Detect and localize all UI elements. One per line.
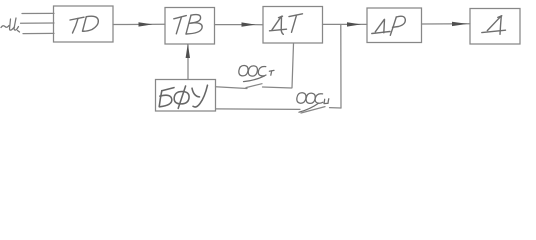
arrowhead TD to TV	[139, 22, 153, 26]
switch OOCt slash	[246, 84, 262, 88]
label OOCt (ООСт)	[239, 65, 274, 81]
arrowhead TV to DT	[242, 22, 256, 26]
wire BFU to TV (vertical)	[187, 45, 189, 80]
block DR (ДР)	[367, 8, 422, 43]
arrowhead BFU to TV	[186, 44, 190, 58]
block BFU (БФУ)	[156, 80, 216, 112]
wire OOCi vertical to DT-DR wire	[340, 25, 342, 109]
block TD (ТД)	[54, 6, 114, 42]
arrowhead DT to DR	[347, 22, 361, 26]
wire input line 1	[22, 12, 54, 14]
label OOCi (ООСи)	[297, 93, 329, 112]
wire OOCt vertical to DT bottom	[292, 44, 294, 88]
wire OOCt segment from BFU	[216, 87, 248, 89]
label ДТ	[270, 14, 303, 35]
wire DR to D	[422, 23, 471, 25]
wire OOCi segment from BFU	[216, 108, 300, 111]
label БФУ	[159, 85, 207, 108]
wire OOCi stub	[330, 107, 342, 109]
switch OOCi slash	[301, 107, 325, 113]
label ТД	[70, 16, 98, 33]
arrowhead DR to D	[452, 22, 468, 26]
block D (Д)	[470, 9, 520, 45]
wire DT to DR	[323, 23, 368, 25]
label ТВ	[174, 15, 202, 34]
label ДР	[372, 16, 406, 35]
wire input line 2	[21, 22, 55, 24]
wire OOCt segment to DT	[263, 87, 292, 88]
block DT (ДТ)	[263, 7, 323, 44]
wire input line 3	[23, 32, 54, 34]
node ~U (AC input label)	[1, 18, 20, 32]
block TV (ТВ)	[165, 8, 215, 45]
wire TD to TV	[113, 23, 165, 25]
label Д	[482, 16, 506, 35]
wire TV to DT	[215, 24, 264, 26]
